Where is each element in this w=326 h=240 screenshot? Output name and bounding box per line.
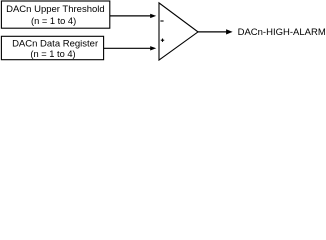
block: DACn Data Register (1, 36, 103, 59)
arrowhead into inverting input (150, 14, 156, 18)
svg-text:DACn Upper Threshold: DACn Upper Threshold (6, 4, 105, 15)
arrowhead into non-inverting input (150, 46, 156, 50)
wire: upper threshold to comparator inverting input (110, 15, 151, 17)
svg-text:DACn-HIGH-ALARM: DACn-HIGH-ALARM (238, 27, 326, 38)
svg-text:(n = 1 to 4): (n = 1 to 4) (30, 49, 75, 59)
svg-text:DACn Data Register: DACn Data Register (12, 38, 98, 49)
comparator U1 (triangle) (159, 3, 198, 60)
svg-text:(n = 1 to 4): (n = 1 to 4) (31, 16, 76, 26)
output arrowhead (226, 29, 233, 34)
wire: data register to comparator non-inverting input (104, 47, 151, 49)
plus sign (non-inverting input) (161, 39, 164, 41)
minus sign (inverting input) (160, 20, 163, 22)
block: DACn Upper Threshold (1, 1, 109, 28)
wire: comparator output (198, 31, 226, 33)
